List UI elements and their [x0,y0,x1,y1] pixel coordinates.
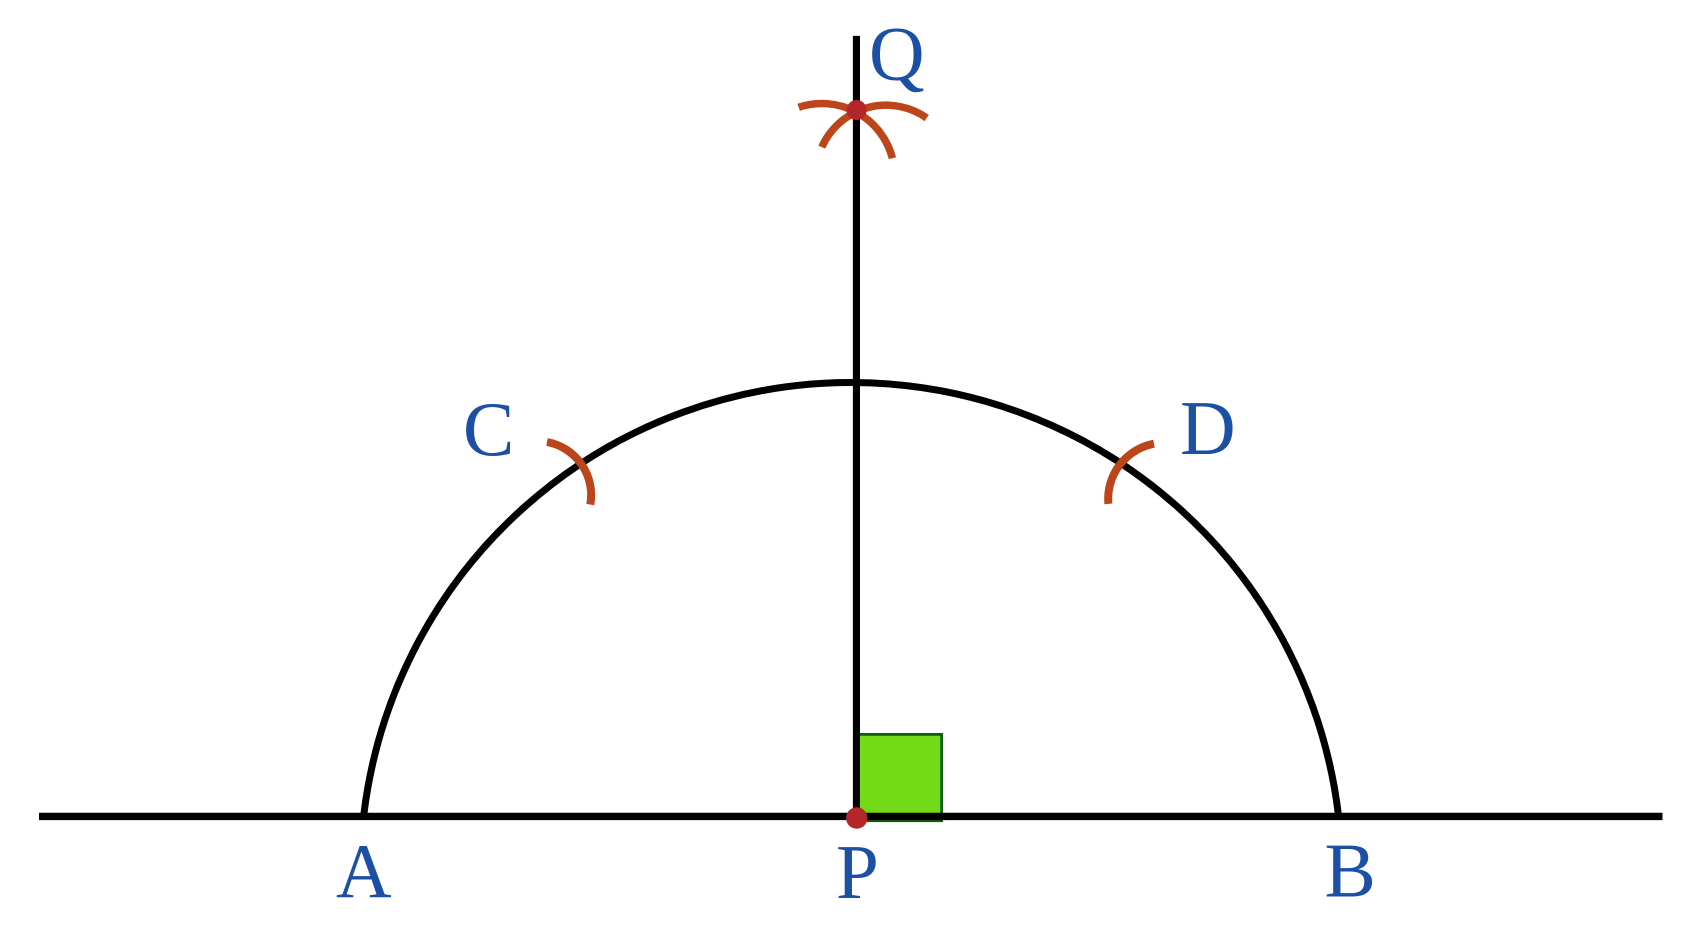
red crossing arc 1 at Q (center lower-left) [799,104,893,159]
svg-text:C: C [463,386,514,472]
svg-text:Q: Q [869,11,925,97]
line AB [39,813,1663,820]
svg-text:D: D [1180,385,1236,471]
svg-text:P: P [836,829,879,915]
perpendicular line PQ [853,36,860,818]
red compass tick at C [547,442,591,505]
red point P [846,807,867,828]
svg-text:A: A [336,828,392,914]
semicircle arc ACDB [364,383,1338,814]
red crossing arc 2 at Q (center lower-right) [822,105,927,147]
red compass tick at D [1108,444,1154,504]
green right-angle square at P [859,734,942,820]
svg-text:B: B [1325,828,1376,914]
red point Q [847,100,867,120]
